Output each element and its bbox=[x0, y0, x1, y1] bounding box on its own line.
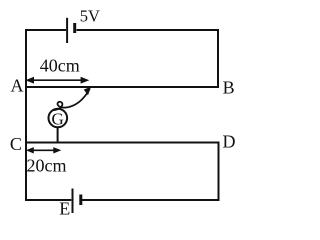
svg-text:5V: 5V bbox=[80, 7, 100, 26]
svg-text:E: E bbox=[59, 198, 70, 218]
svg-text:D: D bbox=[223, 131, 236, 151]
svg-text:B: B bbox=[223, 78, 235, 98]
svg-text:A: A bbox=[11, 76, 24, 96]
svg-text:C: C bbox=[10, 134, 22, 154]
svg-text:G: G bbox=[51, 110, 63, 129]
svg-text:40cm: 40cm bbox=[40, 55, 80, 75]
svg-text:20cm: 20cm bbox=[27, 156, 67, 176]
